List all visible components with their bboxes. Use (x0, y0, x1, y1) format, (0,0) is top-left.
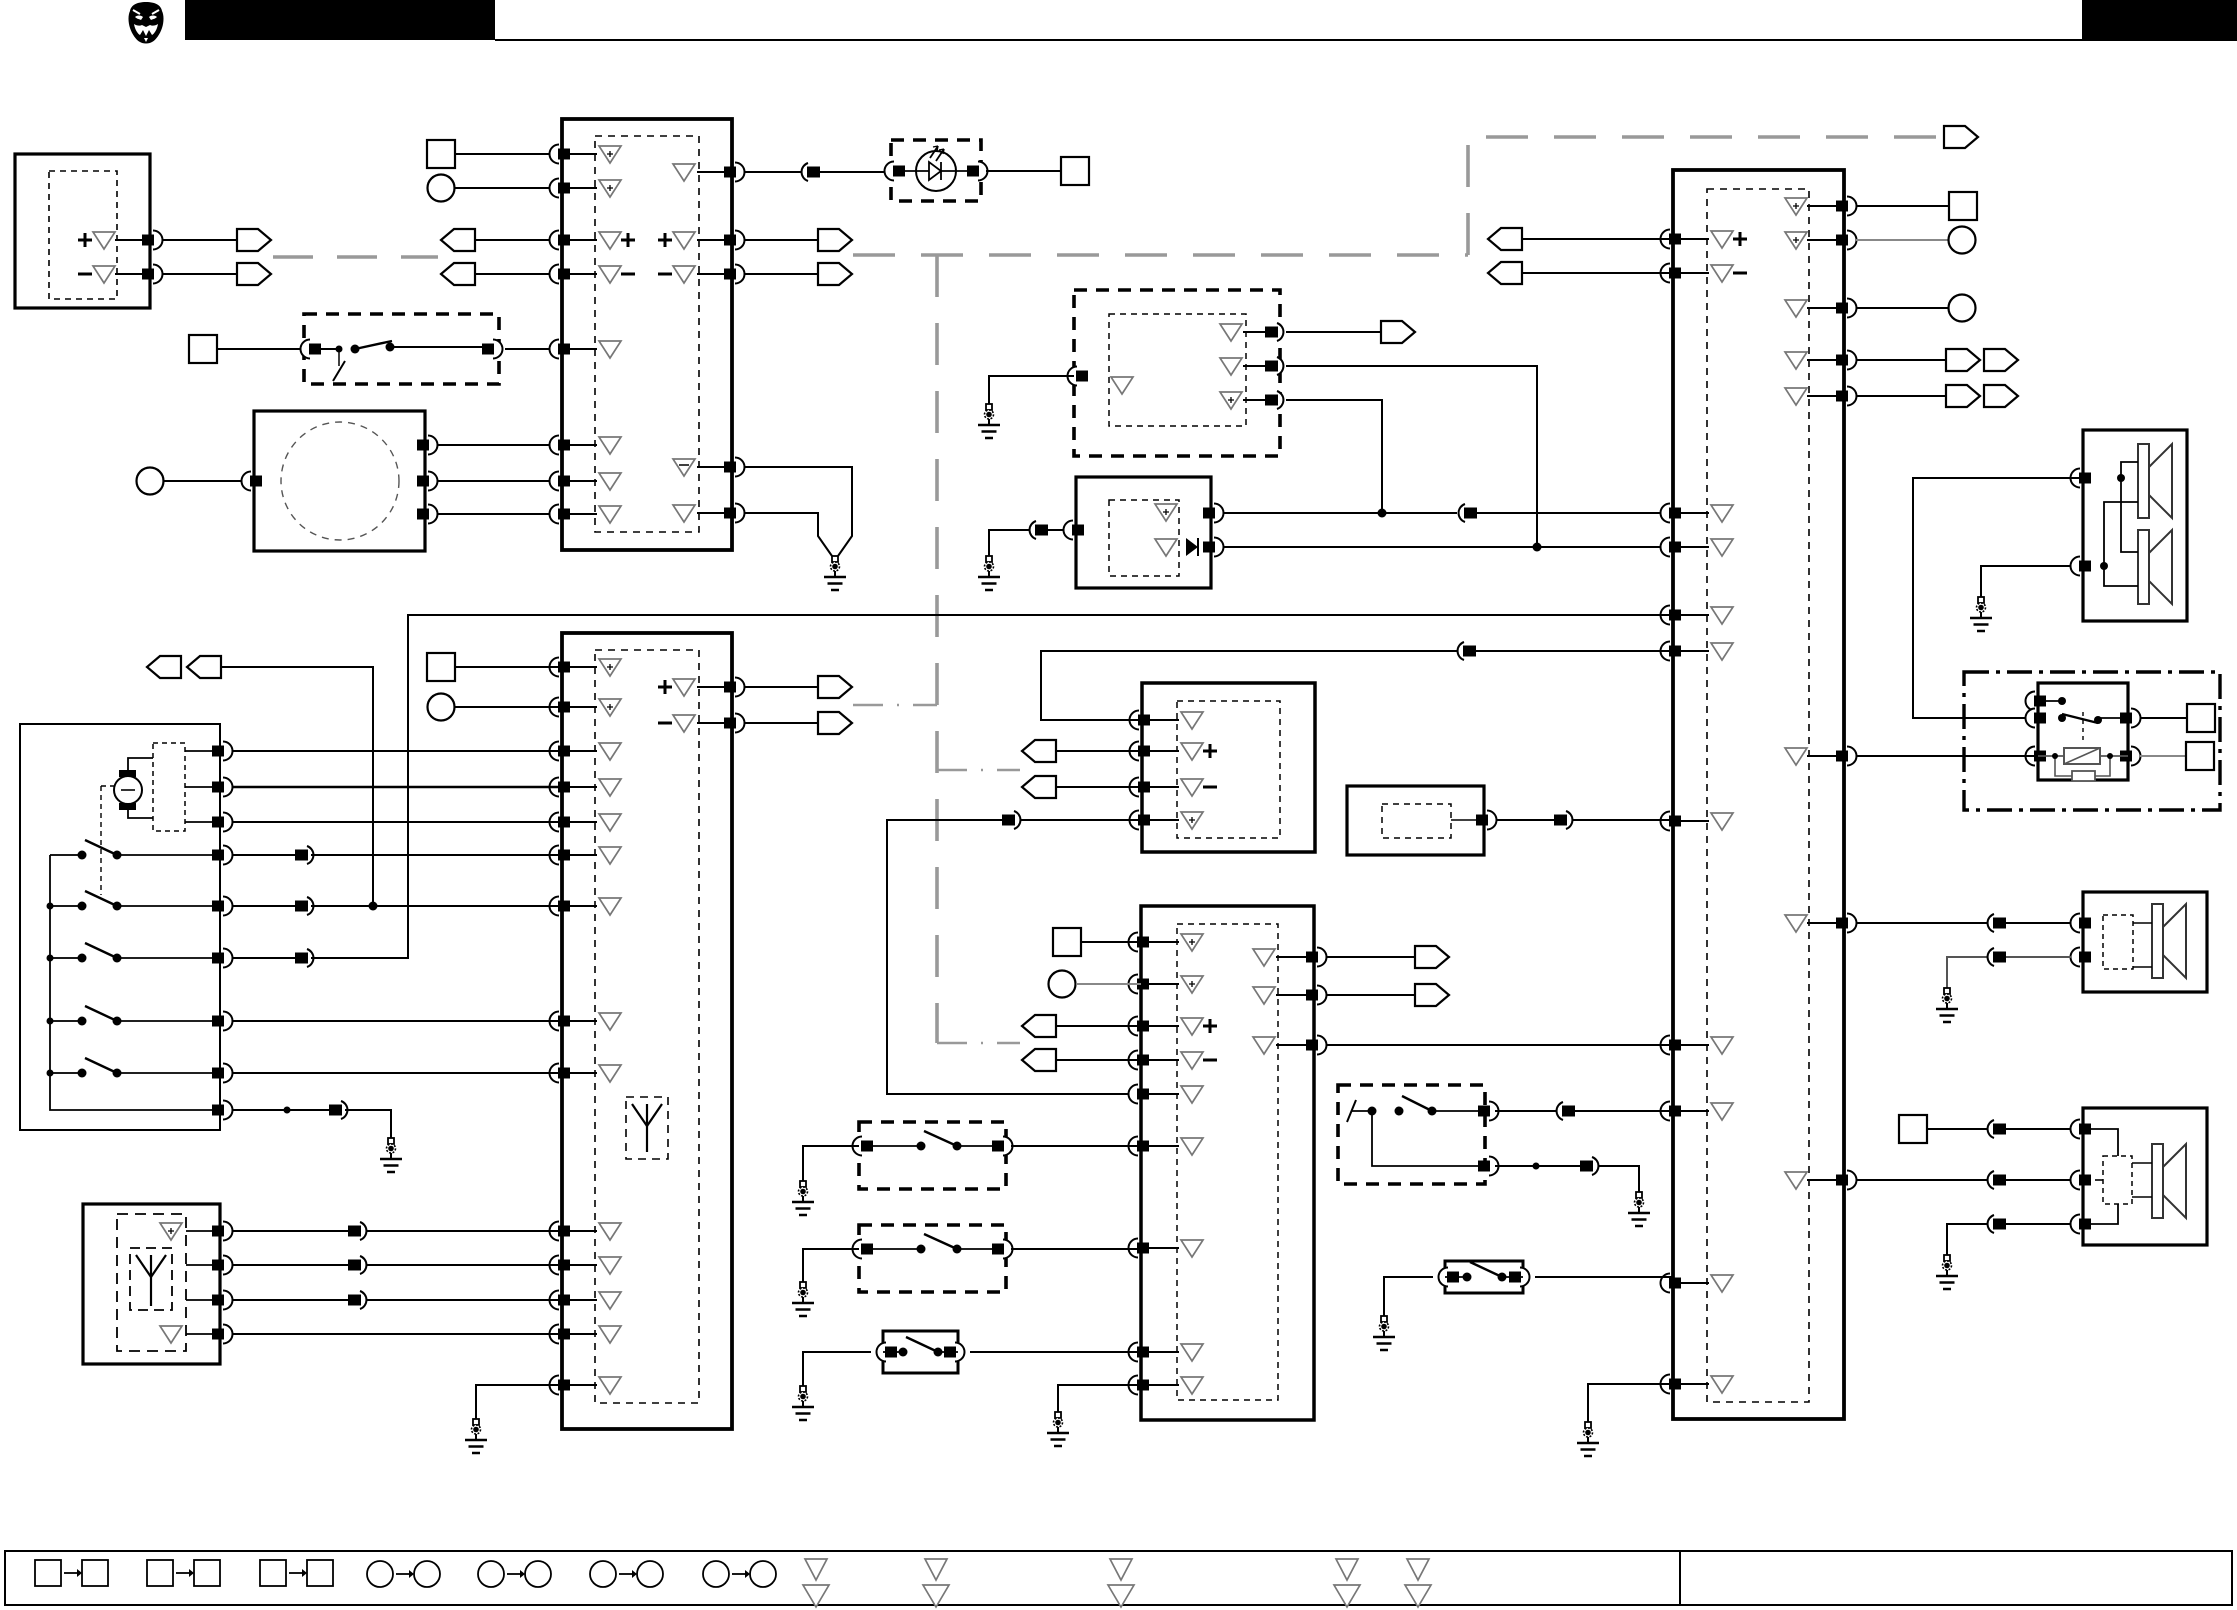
ground wire diode (989, 530, 1064, 556)
connector 651 (1458, 642, 1464, 660)
jaguar logo (129, 2, 164, 44)
arrow into amp - (1022, 1049, 1056, 1071)
antenna module dashed (117, 1214, 186, 1351)
ground CD (978, 404, 1000, 438)
ground speaker mid (1936, 988, 1958, 1022)
wire ECU2 1384 gnd (1588, 1384, 1673, 1422)
shield dash-dot to nav arrows (937, 769, 1020, 772)
ECU3 pin left y667 (550, 658, 560, 677)
pin speaker mid 2 (2071, 948, 2081, 967)
wire magazine 3 (437, 513, 562, 515)
pin B2 (1487, 811, 1497, 830)
arrow ECU1- (818, 263, 852, 285)
amp pin left y1352 (1129, 1343, 1139, 1362)
switch S4 contacts (1347, 1100, 1356, 1122)
CD unit outer dashed box (1074, 290, 1280, 456)
ECU2 pin right y206 (1847, 197, 1857, 216)
ground S4 (1628, 1192, 1650, 1226)
arrow steering a (147, 656, 181, 678)
ECU1 triangle left y274 (599, 266, 621, 283)
relay terminal 1 (2187, 704, 2215, 732)
relay resistor (2072, 771, 2095, 781)
legend box (5, 1551, 2232, 1605)
wire speaker RF feed (1913, 478, 2083, 718)
arrow ECU2 396 a (1946, 385, 1980, 407)
ECU3 triangle left y1334 (599, 1326, 621, 1343)
arrow into amp + (1022, 1015, 1056, 1037)
pin magazine out3 (428, 505, 438, 524)
ECU3 pin left y1021 (550, 1012, 560, 1031)
arrow ECU2 360 b (1984, 349, 2018, 371)
amp triangle y1248 (1181, 1240, 1203, 1257)
connector speaker mid 1 (1988, 914, 1994, 932)
header rule (495, 39, 2237, 41)
wire CD out3 (1286, 400, 1382, 513)
ECU3 triangle left y787 (599, 779, 621, 796)
ECU3 pin left y906 (550, 897, 560, 916)
legend circle pair 2 (478, 1561, 504, 1587)
wire amp- (1055, 1059, 1141, 1061)
switch S5 gnd wire (1384, 1277, 1433, 1316)
ground speaker RF (1970, 597, 1992, 631)
in arrow B+ (441, 229, 475, 251)
connector ant1 (360, 1222, 366, 1240)
relay terminal 2 (2186, 742, 2214, 770)
ECU3 triangle left y855 (599, 847, 621, 864)
arrow into nav + (1022, 740, 1056, 762)
ECU1 pin right + (735, 231, 745, 250)
ECU1 triangle left y188 (599, 180, 621, 197)
ECU3 pin left y707 (550, 698, 560, 717)
wire pack sw3 (232, 957, 296, 959)
pin SW1 right (493, 340, 503, 359)
arrow into ECU2 - (1488, 262, 1522, 284)
switchpack switch3 (66, 957, 82, 959)
ECU2 triangle left y1111 (1711, 1103, 1733, 1120)
pin CD out1 (1277, 323, 1283, 341)
relay switch (2038, 700, 2062, 702)
pin diode left (1064, 521, 1074, 540)
diode symbol (1186, 538, 1198, 556)
switchpack row1 wire (185, 750, 220, 752)
connector ant3 (360, 1291, 366, 1309)
arrow ECU1+ (818, 229, 852, 251)
connector rear spk 1 (1988, 1120, 1994, 1138)
wire door switch 1 to amp (1011, 1145, 1141, 1147)
legend divider (1679, 1551, 1681, 1605)
wire C2 (164, 480, 254, 482)
ECU1 triangle left y349 (599, 341, 621, 358)
ECU3 triangle left y1021 (599, 1013, 621, 1030)
amp triangle y1385 (1181, 1377, 1203, 1394)
wire amp 957 arrow (1326, 956, 1415, 958)
door switch 2 gnd wire (803, 1249, 859, 1282)
ECU2 pin left y1283 (1661, 1274, 1671, 1293)
wire ECU1 513 to ground (744, 513, 832, 556)
pin CD left (1068, 367, 1078, 386)
terminal square amp (1053, 928, 1081, 956)
antenna module inner dashed (130, 1248, 172, 1310)
relay pin l2 (2026, 709, 2036, 728)
ECU2 pin right y923 (1847, 914, 1857, 933)
ECU2 triangle right y923 (1785, 915, 1807, 932)
shield dashed main horizontal (853, 253, 1468, 257)
ECU2 triangle right y1180 (1785, 1172, 1807, 1189)
switchpack motor dashed lever (100, 786, 102, 895)
ECU1 triangle right - (673, 266, 695, 283)
legend circle pair 1 (367, 1561, 393, 1587)
legend square pair 3 (260, 1560, 286, 1586)
ECU3 antenna dashed box (626, 1097, 668, 1159)
pin pack sw4 (223, 1012, 233, 1031)
ECU1 pin left y274 (550, 265, 560, 284)
ECU1 inner dashed (595, 136, 699, 532)
pin CD out3 (1277, 391, 1283, 409)
nav triangle y787 (1181, 779, 1203, 796)
legend circle pair 4 (703, 1561, 729, 1587)
connector rear spk 2 (1988, 1171, 1994, 1189)
switchpack switch5 (66, 1072, 82, 1074)
ECU2 triangle right y396 (1785, 388, 1807, 405)
wire S2 to switch (217, 348, 304, 350)
ECU2 pin right y756 (1847, 747, 1857, 766)
ECU1 pin right top (735, 163, 745, 182)
speaker box RF (2083, 430, 2187, 621)
pin antenna 4 (223, 1325, 233, 1344)
ECU3 inner dashed (595, 650, 699, 1403)
ECU2 triangle left y1384 (1711, 1376, 1733, 1393)
ECU2 pin left y1045 (1661, 1036, 1671, 1055)
wire B2 to ECU2 (1496, 819, 1673, 821)
antenna tri2 (160, 1326, 182, 1343)
wire amp 992 arrow (1326, 994, 1415, 996)
amp pin left y942 (1129, 933, 1139, 952)
ECU2 triangle right y756 (1785, 748, 1807, 765)
ECU1 pin right 467 (735, 458, 745, 477)
ground door switch 1 (792, 1181, 814, 1215)
wire door switch 2 to amp (1011, 1248, 1141, 1250)
terminal square ECU3 (427, 653, 455, 681)
amp pin left y1385 (1129, 1376, 1139, 1395)
switch S3 contacts (877, 1343, 887, 1362)
legend triangle pair 1 (805, 1559, 827, 1580)
wire amp+ (1055, 1025, 1141, 1027)
ECU3 triangle right + (673, 679, 695, 696)
wire to arrow A+ (162, 239, 237, 241)
connector 820 (1014, 811, 1020, 829)
pin pack sw5 (223, 1064, 233, 1083)
antenna module symbol (136, 1255, 166, 1306)
legend triangle pair 2 (925, 1559, 947, 1580)
wire pack sw1 (232, 854, 296, 856)
ECU2 triangle left y273 (1711, 265, 1733, 282)
connector diode out1 (1459, 504, 1465, 522)
pin LED left (885, 162, 895, 181)
wire circ ECU3 (455, 706, 562, 708)
ECU3 triangle left y1265 (599, 1257, 621, 1274)
wire terminal to rear spk (1927, 1128, 2071, 1130)
nav triangle y751 (1181, 743, 1203, 760)
wire diode out1 (1223, 512, 1457, 514)
amp box (1141, 906, 1314, 1420)
ECU3 triangle left y1300 (599, 1292, 621, 1309)
connector speaker mid 2 (1988, 948, 1994, 966)
ECU2 triangle left y1283 (1711, 1275, 1733, 1292)
pin pack sw2 (223, 897, 233, 916)
ground wire CD (989, 376, 1074, 404)
terminal circle C2 (137, 468, 164, 495)
ECU3 pin left y855 (550, 846, 560, 865)
amp pin right 992 (1317, 986, 1327, 1005)
shield dashed vertical main (935, 255, 939, 1043)
speaker box mid (2083, 892, 2207, 992)
switchpack row2 wire (185, 786, 220, 788)
speaker rear internal (2083, 1129, 2118, 1156)
speaker box rear (2083, 1108, 2207, 1245)
pin A- (153, 265, 163, 284)
ECU2 pin left y615 (1661, 606, 1670, 625)
wire ECU2 to rear spk (1856, 1179, 2071, 1181)
ground door switch 2 (792, 1282, 814, 1316)
pin pack row3 (223, 813, 233, 832)
ECU3 triangle right - (673, 715, 695, 732)
nav triangle y820 (1181, 812, 1203, 829)
amp pin left y1094 (1129, 1085, 1139, 1104)
magazine dashed circle (281, 422, 399, 540)
wire sq amp (1081, 941, 1141, 943)
ECU1 pin left y188 (550, 179, 560, 198)
pin speaker rear 1 (2071, 1120, 2081, 1139)
wire S4 row2 gnd (1495, 1166, 1639, 1192)
ECU3 triangle left y822 (599, 814, 621, 831)
ECU3 triangle left y707 (599, 699, 621, 716)
ECU3 pin left y822 (550, 813, 560, 832)
nav pin left y820 (1130, 811, 1140, 830)
amp pin left y1026 (1129, 1017, 1139, 1036)
ECU1 pin right 513 (735, 504, 745, 523)
ECU3 pin left y1231 (550, 1222, 560, 1241)
speaker rear driver (2152, 1144, 2186, 1218)
wire pack sw3 up to ECU2 (311, 615, 1673, 958)
ECU2 pin left y273 (1661, 264, 1671, 283)
ground ECU3 (465, 1419, 487, 1453)
ECU1 pin left y349 (550, 340, 560, 359)
ECU1 triangle left y514 (599, 506, 621, 523)
wire pack ground run (345, 1110, 391, 1138)
switch S5 box (1445, 1261, 1523, 1293)
terminal circle ECU2 240 (1949, 227, 1976, 254)
speaker rear crossover dashed (2103, 1156, 2132, 1204)
ECU1 triangle left y154 (599, 146, 621, 163)
module A inner dashed (49, 171, 117, 299)
ECU2 pin right y308 (1847, 299, 1856, 318)
wire magazine 1 (437, 444, 562, 446)
connector rear spk 3 (1988, 1215, 1994, 1233)
legend triangle pair 5 (1407, 1559, 1429, 1580)
ECU3 triangle left y1231 (599, 1223, 621, 1240)
switch SW1 contacts (316, 348, 339, 350)
ECU1 triangle left y445 (599, 437, 621, 454)
ECU2 pin left y1384 (1661, 1375, 1671, 1394)
ECU3 triangle left y906 (599, 898, 621, 915)
CD triangle out3 (1220, 392, 1242, 409)
ECU2 pin left y1111 (1661, 1102, 1671, 1121)
connector diode gnd (1030, 521, 1036, 539)
wire CD out2 (1286, 366, 1537, 547)
wire pack sw5 (232, 1072, 562, 1074)
ECU2 triangle left y1045 (1711, 1037, 1733, 1054)
arrow ECU2 360 a (1946, 349, 1980, 371)
amp triangle y984 (1181, 976, 1203, 993)
wire S3 to amp (970, 1351, 1141, 1353)
shield dash-dot to ECU3 arrows (853, 704, 937, 707)
pin magazine left (242, 472, 252, 491)
door switch 2 contacts (853, 1240, 863, 1259)
pin CD out2 (1277, 357, 1283, 375)
wire nav- (1055, 786, 1142, 788)
terminal square ECU2 206 (1949, 192, 1977, 220)
ECU2 triangle right y308 (1785, 300, 1807, 317)
pin SW1 left (301, 340, 311, 359)
speaker RF internal wires (2121, 462, 2138, 478)
legend square pair 1 (35, 1560, 61, 1586)
pin pack sw3 (223, 949, 233, 968)
wire A+ (115, 239, 150, 241)
ECU3 pin right - (735, 714, 745, 733)
wire antenna 4 (186, 1333, 220, 1335)
wire circ amp (1076, 983, 1141, 985)
switchpack switch4 (66, 1020, 82, 1022)
door switch 1 contacts (853, 1137, 863, 1156)
amp pin left y1146 (1129, 1137, 1139, 1156)
legend triangle pair 4 (1336, 1559, 1358, 1580)
ECU2 triangle right y240 (1785, 232, 1807, 249)
wire ECU1+ to arrow (744, 239, 818, 241)
door switch 1 gnd wire (803, 1146, 859, 1181)
ECU1 pin left y481 (550, 472, 560, 491)
wire antenna 3 (186, 1299, 220, 1301)
wire speaker mid gnd (1947, 957, 2071, 988)
ground ECU2 (1577, 1422, 1599, 1456)
wire LED to terminal (986, 170, 1061, 172)
wire ECU2 240 gray (1856, 239, 1948, 241)
wire ECU1 to LED (744, 171, 891, 173)
title bar (185, 0, 495, 40)
switchpack bus (50, 854, 66, 856)
amp triangle right 957 (1253, 949, 1275, 966)
switchpack switch2 (66, 905, 82, 907)
wire S1 (455, 153, 562, 155)
amp pin right 957 (1317, 948, 1327, 967)
pin speaker rear 2 (2071, 1171, 2081, 1190)
wire magazine 2 (437, 480, 562, 482)
ground S3 (792, 1386, 814, 1420)
pin pack ground row (223, 1101, 233, 1120)
ECU3 triangle left y667 (599, 659, 621, 676)
legend square pair 2 (147, 1560, 173, 1586)
wire ECU2 396 (1856, 395, 1946, 397)
ECU2 triangle left y651 (1711, 643, 1733, 660)
wire pack ground row (232, 1109, 330, 1111)
ECU2 triangle right y206 (1785, 198, 1807, 215)
amp pin left y1060 (1129, 1051, 1139, 1070)
amp pin left y984 (1129, 975, 1139, 994)
switch S4 dashed box (1338, 1085, 1485, 1184)
CD triangle out2 (1220, 358, 1242, 375)
wire ECU1- to arrow (744, 273, 818, 275)
arrow amp 957 (1415, 946, 1449, 968)
speaker RF woofer (2138, 530, 2172, 604)
relay pin r2 (2131, 747, 2141, 766)
wire ECU1 467 to ground (744, 467, 852, 556)
amp triangle right 992 (1253, 987, 1275, 1004)
ECU2 triangle right y360 (1785, 352, 1807, 369)
wire rear spk gnd (1947, 1224, 2071, 1255)
shield dashed to top arrow (1468, 137, 1944, 255)
terminal circle C1 (428, 175, 455, 202)
triangle A minus (93, 266, 115, 283)
wire antenna 2 (186, 1264, 220, 1266)
switch SW1 dashed box (304, 314, 499, 384)
relay out1 wire (2140, 717, 2187, 719)
wire C1 (455, 187, 562, 189)
wire steering arrows (221, 667, 373, 906)
pin magazine out2 (428, 472, 438, 491)
connector S4 (1557, 1102, 1563, 1120)
nav triangle y720 (1181, 712, 1203, 729)
amp ground wire (1058, 1385, 1141, 1412)
pin speaker RF 1 (2071, 469, 2081, 488)
wire S4 to ECU2 (1495, 1110, 1673, 1112)
terminal square rear spk (1899, 1115, 1927, 1143)
arrow steering b (187, 656, 221, 678)
arrow ECU3 + (818, 676, 852, 698)
legend circle pair 3 (590, 1561, 616, 1587)
wire arrow ECU2- (1521, 272, 1673, 274)
ECU1 triangle right + (673, 232, 695, 249)
switchpack motor wires (128, 758, 153, 770)
ECU1 triangle right 513 (673, 505, 695, 522)
wire pack sw4 (232, 1020, 562, 1022)
ECU1 pin right - (735, 265, 745, 284)
amp inner dashed (1177, 924, 1278, 1400)
triangle A plus (93, 232, 115, 249)
relay pin l1 (2026, 692, 2036, 711)
speaker RF tweeter (2138, 444, 2172, 518)
amp pin right 1043 (1317, 1036, 1327, 1055)
diode module tri2 (1155, 539, 1177, 556)
connector ant2 (360, 1256, 366, 1274)
ECU2 inner dashed (1707, 189, 1809, 1402)
wire amp 1043 to ECU2 (1326, 1044, 1673, 1046)
CD triangle in (1111, 377, 1133, 394)
connector S4 row2 (1592, 1157, 1598, 1175)
ECU3 triangle left y1385 (599, 1377, 621, 1394)
amp triangle right 1043 (1253, 1037, 1275, 1054)
ECU2 box (1673, 170, 1844, 1419)
ECU1 triangle right -467 (673, 459, 695, 476)
legend triangle pair 3 (1110, 1559, 1132, 1580)
diode module box (1076, 477, 1211, 588)
terminal square S1 (427, 140, 455, 168)
pin speaker RF 2 (2071, 557, 2081, 576)
speaker mid driver (2152, 904, 2186, 978)
nav pin left y751 (1130, 742, 1140, 761)
pin pack row1 (223, 742, 233, 761)
ECU2 pin left y513 (1661, 504, 1671, 523)
arrow amp 992 (1415, 984, 1449, 1006)
pin diode out1 (1214, 504, 1224, 523)
